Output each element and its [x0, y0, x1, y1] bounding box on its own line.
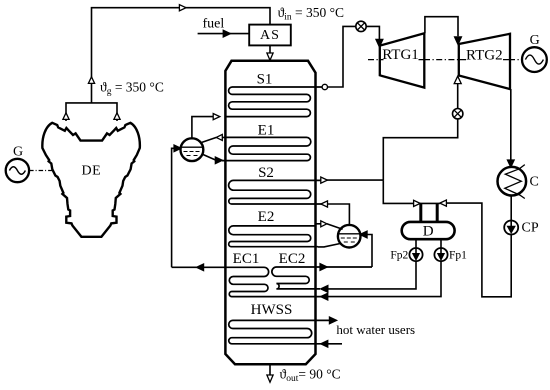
wire Fp2 to EC2 inlet [321, 262, 416, 289]
svg-text:EC1: EC1 [233, 251, 260, 267]
arrow gas outlet (open, down) [267, 375, 273, 382]
arrow into RTG1 (filled, down) [376, 40, 382, 47]
node arrow on riser (open, up) [88, 77, 94, 84]
coil HWSS serpentine [229, 320, 342, 343]
deaerator D vessel [402, 222, 455, 239]
wire junction up to valve2 and RTG2 bottom [383, 84, 457, 181]
wire crossover RTG1 to RTG2 [425, 17, 458, 37]
separator SEP2 circle [338, 225, 361, 248]
AS box U-AS [249, 25, 291, 46]
coil S2 serpentine [229, 180, 322, 204]
wire Fp1 to EC1 inlet [321, 262, 441, 297]
valve V1 [356, 21, 366, 31]
svg-text:HWSS: HWSS [251, 302, 293, 318]
wire SEP1 steam to S1 inlet [192, 117, 214, 139]
sine wave in G left [9, 167, 25, 175]
arrow condensate into deaerator (open, left) [440, 200, 447, 206]
svg-text:DE: DE [81, 164, 101, 179]
wire AS to boiler [269, 45, 271, 53]
arrow into RTG2 bottom (open, up) [454, 76, 461, 83]
arrow E1 inlet (filled, right) [216, 157, 223, 163]
boiler vessel outline [225, 61, 315, 364]
wire condenser through CP pump [510, 195, 512, 228]
wire RTG2 exhaust to condenser [510, 89, 512, 161]
wire EC2 outlet riser to SEP2 [366, 235, 372, 268]
arrow EC1 outlet (filled, left) [197, 264, 204, 270]
arrow EC2 inlet (filled, left) [321, 286, 328, 292]
wire boiler bottom gas outlet [269, 364, 271, 375]
generator G left circle [6, 159, 29, 182]
pump Fp1 [434, 248, 447, 261]
separator SEP1 circle [181, 138, 204, 161]
arrow hot water supply (filled, right) [330, 317, 337, 323]
node S1 outlet terminal circle [322, 84, 327, 89]
SEP2 water dashes [341, 238, 357, 242]
wire EC1 outlet to SEP1 feed [172, 148, 175, 267]
SEP2 liquid level line [338, 233, 360, 235]
svg-text:Fp1: Fp1 [449, 250, 467, 262]
svg-text:S1: S1 [257, 72, 273, 88]
svg-text:hot water users: hot water users [336, 322, 415, 337]
arrow steam into deaerator (open, right) [414, 200, 421, 206]
engine DE body [42, 123, 140, 237]
arrow into RTG2 top (filled, down) [455, 37, 461, 44]
wire SEP1 water to E1 inlet [203, 155, 216, 161]
wire E1 outlet to SEP1 [202, 137, 226, 142]
arrow S1 inlet (open, right) [213, 114, 220, 120]
SEP1 liquid level line [181, 146, 203, 148]
SEP1 water dashes [184, 152, 200, 156]
svg-text:EC2: EC2 [279, 251, 306, 267]
arrow fuel (filled right) [223, 31, 230, 37]
node arrow on top line (open, right) [179, 5, 186, 11]
svg-text:RTG1: RTG1 [382, 47, 419, 63]
arrow into collector right (open, up) [114, 113, 120, 120]
svg-text:E2: E2 [258, 209, 275, 225]
arrow EC1 inlet (filled, left) [321, 294, 328, 300]
wire SEP2 water to E2 inlet [318, 243, 341, 247]
svg-text:S2: S2 [258, 165, 274, 181]
svg-text:G: G [530, 33, 540, 48]
coil EC2 serpentine [272, 267, 372, 289]
svg-text:Fp2: Fp2 [390, 250, 408, 262]
arrow S2 outlet (open, right) [321, 177, 328, 183]
arrow into condenser (filled, down) [508, 160, 514, 167]
svg-text:G: G [13, 144, 23, 159]
svg-text:C: C [530, 174, 539, 189]
pump Fp2 [409, 248, 422, 261]
collector above DE engine [66, 103, 117, 121]
turbine RTG2 [459, 34, 510, 89]
svg-text:E1: E1 [258, 122, 275, 138]
arrow feed into SEP1 (filled, right) [174, 145, 181, 151]
wire S1 steam to valve and RTG1 [328, 26, 380, 87]
wire junction down to deaerator [383, 180, 414, 203]
wire SEP2 steam to S2 inlet [327, 204, 349, 225]
shaft dash-dot DE to generator [29, 170, 53, 172]
shaft dash-dot line turbines to generator [368, 59, 522, 61]
wire exhaust gas main line DE to AS [92, 8, 271, 103]
shaft solid segments inside turbines [381, 59, 510, 61]
wire S2 steam line to junction [322, 179, 383, 181]
coil E2 serpentine [229, 226, 318, 247]
coil EC1 serpentine [172, 267, 321, 296]
arrow into collector left (open, up) [63, 113, 69, 120]
arrow E1 outlet (open, left) [216, 134, 222, 140]
condenser C circle [498, 167, 527, 196]
svg-text:AS: AS [260, 28, 280, 43]
arrow E2 outlet (open, right) [321, 221, 327, 227]
wire CP condensate to deaerator [446, 203, 511, 297]
condenser zigzag [505, 165, 525, 199]
generator G right circle [522, 47, 547, 72]
wire fuel line [198, 33, 250, 35]
svg-text:CP: CP [522, 220, 539, 235]
deaerator header and risers [420, 202, 440, 204]
valve V2 [453, 109, 463, 119]
svg-text:D: D [423, 223, 434, 239]
arrow into boiler (open, down) [267, 53, 273, 60]
arrow S2 inlet (open, left) [321, 201, 328, 207]
coil S1 serpentine [225, 87, 325, 117]
sine wave in G right [525, 55, 543, 64]
svg-text:fuel: fuel [203, 17, 225, 32]
pump CP [504, 221, 518, 235]
arrow hot water return (filled, left) [321, 341, 328, 347]
wire E2 outlet to SEP2 [316, 224, 343, 230]
turbine RTG1 [380, 33, 425, 87]
coil E1 serpentine [222, 137, 311, 160]
arrow EC2 outlet (filled, right) [320, 264, 327, 270]
svg-text:RTG2: RTG2 [466, 47, 503, 63]
wire deaerator to pumps [416, 239, 441, 248]
arrow feed into SEP2 (filled, left) [360, 231, 367, 237]
